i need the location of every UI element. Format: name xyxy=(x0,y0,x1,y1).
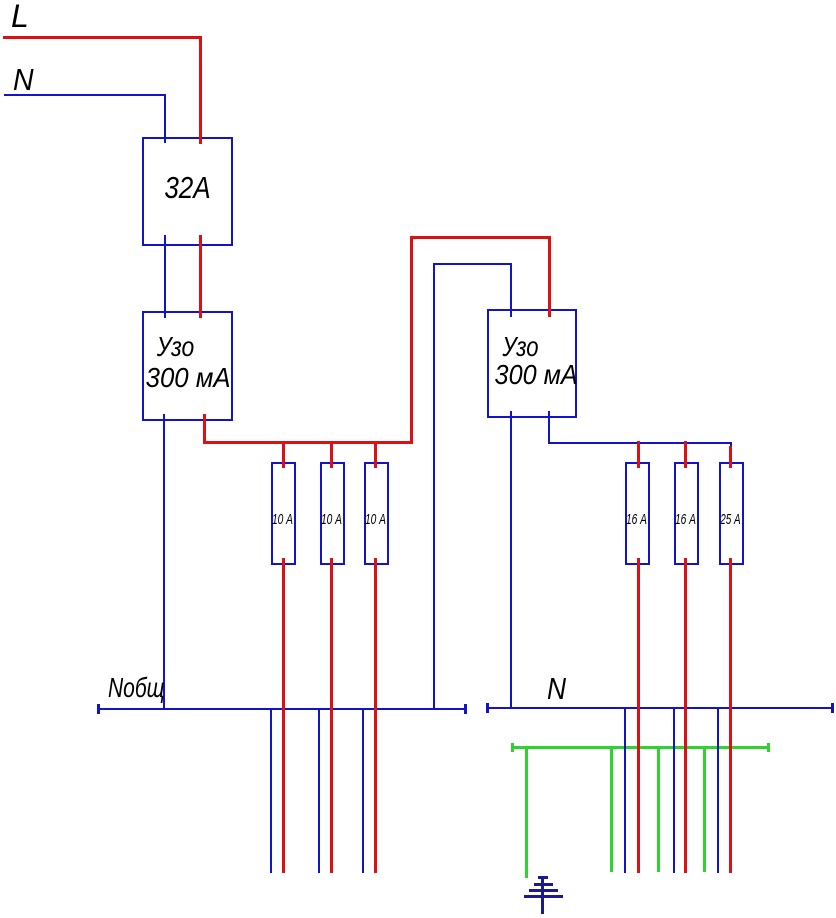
wire right bus corner down xyxy=(730,442,732,448)
breaker QF1 32A box xyxy=(142,137,233,246)
ground earth bar 2 xyxy=(534,883,553,886)
RCD U2 Uzo 300mA box xyxy=(487,309,577,418)
wire drop to breaker 10A no1 xyxy=(282,441,285,468)
bus PE left end tick xyxy=(511,743,514,752)
node N label xyxy=(13,64,34,95)
wire N neutral drop to breaker 32A xyxy=(164,94,166,143)
bus N right end tick xyxy=(831,703,834,713)
breaker QF4 10A box xyxy=(364,462,389,565)
wire N drop into RCD2 xyxy=(510,263,512,317)
ground earth bar 1 xyxy=(538,876,548,879)
bus N right horizontal xyxy=(487,707,833,709)
wire N RCD2 left pin down to N bus xyxy=(510,411,512,709)
value label Uzo 300 mA right xyxy=(485,333,557,361)
breaker QF7 25A box xyxy=(719,462,744,565)
wire N from RCD1 down to Nobsh bus xyxy=(163,414,165,710)
ground earth symbol stem xyxy=(541,876,544,914)
wire load phase from 16A no2 xyxy=(684,558,687,873)
wire L between 32A and RCD1 xyxy=(199,235,202,318)
wire load phase from 10A no2 xyxy=(330,558,333,873)
wire neutral drop right no3 xyxy=(717,707,719,873)
breaker QF3 10A box xyxy=(320,462,345,565)
wire L top horizontal to RCD2 xyxy=(410,236,551,239)
value label Uzo 300 mA xyxy=(138,333,213,361)
wire drop to breaker 10A no2 xyxy=(330,441,333,468)
bus Nobsh left end tick xyxy=(97,704,100,714)
wire load phase from 10A no1 xyxy=(282,558,285,873)
wire PE drop to earth xyxy=(525,746,528,878)
value label 10 A no3 xyxy=(365,512,382,527)
wire L drop into RCD2 xyxy=(548,236,551,317)
wire load phase from 25A xyxy=(729,558,732,873)
value label 25 A xyxy=(720,512,737,527)
wire PE drop no2 xyxy=(657,746,660,872)
wire drop to breaker 25A xyxy=(729,446,732,468)
wire RCD2 output pin down xyxy=(548,411,550,444)
RCD U1 Uzo 300mA box xyxy=(142,311,233,421)
bus PE green horizontal xyxy=(512,746,770,749)
breaker QF2 10A box xyxy=(271,462,296,565)
wire N between 32A and RCD1 xyxy=(164,235,166,318)
wire PE drop no1 xyxy=(610,746,613,872)
wire L riser from left bus up xyxy=(410,236,413,444)
wire neutral drop left no1 xyxy=(270,708,272,873)
wire load phase from 16A no1 xyxy=(637,558,640,873)
ground earth bar 3 xyxy=(529,889,558,892)
bus Nobsh right end tick xyxy=(464,704,467,714)
value label 10 A no2 xyxy=(321,512,338,527)
wire neutral drop right no1 xyxy=(624,707,626,873)
wire PE drop no3 xyxy=(703,746,706,872)
wire drop to breaker 10A no3 xyxy=(374,441,377,468)
wire neutral drop left no2 xyxy=(318,708,320,873)
wire N neutral input horizontal xyxy=(4,94,166,96)
value label 16 A no2 xyxy=(675,512,692,527)
bus PE right end tick xyxy=(767,743,770,752)
value label 10 A no1 xyxy=(272,512,289,527)
wire load phase from 10A no3 xyxy=(374,558,377,873)
wire neutral drop left no3 xyxy=(362,708,364,873)
bus Nobsh horizontal xyxy=(98,708,466,710)
wire N branch riser x434 xyxy=(433,263,435,710)
wire drop to breaker 16A no2 xyxy=(684,441,687,468)
wire L RCD1 output pin down xyxy=(203,414,206,444)
node N right label xyxy=(547,673,566,704)
node L label xyxy=(11,0,29,32)
breaker QF6 16A box xyxy=(674,462,699,565)
value label 16 A no1 xyxy=(626,512,643,527)
ground earth bar 4 xyxy=(524,895,563,898)
wire L phase drop to breaker 32A xyxy=(199,36,202,144)
wire N branch horizontal to RCD2 xyxy=(433,263,512,265)
wire L left distribution bus horizontal xyxy=(203,441,413,444)
bus N left end tick xyxy=(486,703,489,713)
wire neutral drop right no2 xyxy=(673,707,675,873)
wire drop to breaker 16A no1 xyxy=(637,441,640,468)
wire right distribution bus horizontal blue xyxy=(548,442,732,444)
node Nobsh label xyxy=(108,674,165,702)
wire L phase input horizontal xyxy=(3,36,202,39)
breaker QF5 16A box xyxy=(625,462,650,565)
value label 32A xyxy=(149,172,225,203)
